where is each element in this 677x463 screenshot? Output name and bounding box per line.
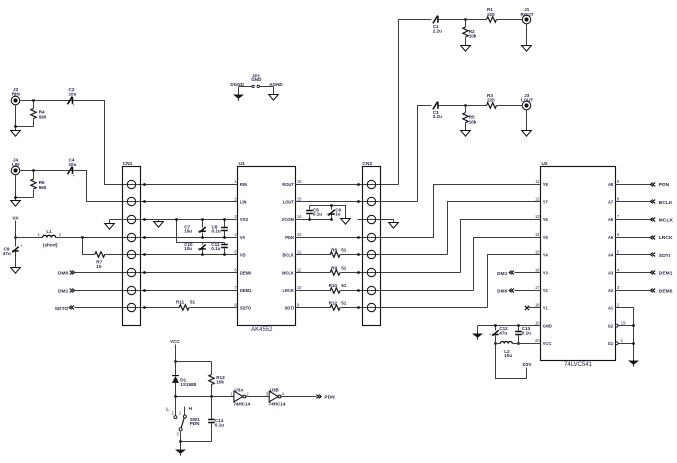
junction CN2 pin 6 stub — [357, 271, 360, 274]
svg-text:18: 18 — [535, 303, 540, 308]
wire MCLK row: U1 to R9 — [296, 272, 331, 274]
capacitor C11 0.1u (VD-VSS) — [224, 243, 226, 246]
resistor R8 51 — [330, 252, 340, 257]
svg-text:LOUT: LOUT — [521, 97, 534, 102]
wire PDN row: U1 pin 13 through CN2 pin 4 up to U2 Y8 — [296, 185, 541, 238]
junction CN1 pin 4 stub — [143, 236, 146, 239]
svg-text:DM0: DM0 — [497, 289, 508, 295]
svg-text:0.1u: 0.1u — [313, 212, 322, 217]
wire U2 A5 to port LRCK — [616, 237, 651, 239]
wire VCC rail to R13 — [176, 361, 212, 363]
capacitor C7 10u (VA-VSS) — [202, 220, 204, 228]
svg-text:LIN: LIN — [240, 200, 247, 205]
svg-text:R10: R10 — [329, 283, 338, 288]
inverter U3A 74HC14 — [234, 391, 243, 402]
resistor R12 51 — [330, 305, 340, 310]
U1 pin 4 name/number (VA) — [234, 232, 245, 240]
svg-text:ROUT: ROUT — [282, 182, 294, 187]
junction CN1 pin 2 stub — [143, 200, 146, 203]
wire U2 A2 to port DEM0 — [616, 290, 651, 292]
port arrow PDN out — [316, 395, 321, 399]
svg-text:PDN: PDN — [659, 182, 670, 188]
inductor L2 10u — [500, 342, 512, 344]
op-amp/codec U1 AK4552 body — [238, 167, 296, 326]
capacitor C8 0.1u (VA-VSS) — [224, 220, 226, 228]
junction VA/C9 — [14, 236, 17, 239]
U1 pin 12 name/number (BCLK) — [283, 250, 303, 258]
port arrow SDTI — [650, 253, 655, 257]
svg-text:0.1u: 0.1u — [212, 229, 221, 234]
wire ground rail to C14 — [181, 441, 212, 443]
U1 pin 16 name/number (ROUT) — [282, 179, 302, 187]
junction C11 bottom — [223, 253, 226, 256]
svg-text:G2: G2 — [608, 323, 614, 328]
svg-text:VD: VD — [240, 253, 246, 258]
junction G1/tie-down — [632, 342, 635, 345]
resistor R13 10k — [211, 362, 213, 375]
port DM0 input — [58, 271, 69, 277]
wire BCLK: CN2 pin 5 up to U2 pin — [448, 202, 541, 255]
svg-text:0.1u: 0.1u — [211, 246, 220, 251]
connector CN1 pin 6 circle — [127, 268, 135, 276]
wire: C3 to R3 — [439, 105, 487, 107]
svg-text:47u: 47u — [3, 251, 11, 256]
svg-text:PDN: PDN — [190, 421, 200, 426]
svg-text:GND: GND — [251, 77, 262, 82]
wire U3B to PDN port — [282, 396, 317, 398]
junction CN1 pin 3 stub — [143, 218, 146, 221]
svg-text:DM1: DM1 — [58, 288, 69, 294]
svg-text:Y4: Y4 — [543, 253, 549, 258]
U2 pin 12 name/number (Y7) — [535, 197, 549, 205]
svg-text:SDTI: SDTI — [659, 253, 671, 259]
wire DGND drop — [238, 87, 240, 95]
junction node C3/R5/R3 — [464, 104, 467, 107]
RCA jack J4 LIN — [11, 166, 20, 175]
svg-text:A3: A3 — [608, 270, 614, 275]
svg-text:A7: A7 — [608, 200, 614, 205]
wire LOUT row: U1 pin 15 through CN2 pin 2 (joins output rail) — [296, 201, 418, 203]
U2 pin 1 name/number (G1) — [608, 338, 624, 346]
junction C8 bottom — [223, 236, 226, 239]
svg-text:15: 15 — [535, 250, 540, 255]
connector CN1 pin 8 circle — [127, 303, 135, 311]
wire AGND drop — [273, 87, 275, 95]
wire U2 pin 18 no-connect stub — [529, 307, 541, 309]
junction D1/SW1 node — [174, 395, 177, 398]
ground (analog) AGND symbol — [269, 95, 279, 101]
wire U2 A3 to port DEM1 — [616, 272, 651, 274]
svg-text:10u: 10u — [69, 92, 77, 97]
svg-text:PDN: PDN — [324, 395, 335, 401]
svg-text:LIN: LIN — [12, 162, 20, 167]
port label PDN — [659, 182, 670, 188]
svg-text:R11: R11 — [176, 299, 185, 304]
port arrow PDN — [650, 183, 655, 187]
svg-text:A8: A8 — [608, 182, 614, 187]
capacitor C10 10u (VD-VSS) — [202, 243, 204, 245]
connector CN2 pin 6 circle — [367, 268, 375, 276]
svg-text:MCLK: MCLK — [282, 270, 294, 275]
svg-text:ROUT: ROUT — [520, 12, 533, 17]
connector CN2 pin 7 circle — [367, 286, 375, 294]
capacitor C1 2.2u — [433, 16, 438, 24]
wire MCLK: CN2 pin 6 up to U2 pin — [461, 220, 541, 273]
resistor R11 51 — [179, 305, 189, 310]
svg-text:DEM0: DEM0 — [659, 288, 673, 294]
U2 pin 8 name/number (A7) — [608, 197, 620, 205]
svg-text:16: 16 — [297, 179, 302, 184]
wire CN2 pin 3 stub to right ground — [358, 220, 394, 223]
wire BCLK row: U1 to R8 — [296, 254, 331, 256]
port arrow DM0 (U2) — [509, 289, 514, 293]
RCA jack J3 LOUT — [522, 101, 531, 110]
U1 pin 9 name/number (SDTI) — [285, 303, 300, 311]
connector CN2 pin 8 circle — [367, 303, 375, 311]
svg-text:U2: U2 — [541, 161, 548, 167]
U2 G1 bubble — [615, 342, 618, 345]
svg-text:51: 51 — [341, 248, 347, 253]
wire U2 A7 to port BCLK — [616, 201, 651, 203]
wire G1 to tie-down — [619, 343, 634, 345]
port arrow LRCK — [650, 236, 655, 240]
svg-text:AK4552: AK4552 — [251, 327, 273, 333]
ground (analog) VCOM rail — [341, 219, 351, 225]
U2 pin 10 name/number (GND) — [535, 320, 552, 328]
svg-text:10u: 10u — [184, 246, 192, 251]
svg-text:13: 13 — [297, 232, 302, 237]
port arrow BCLK — [650, 200, 655, 204]
U1 pin 15 name/number (LOUT) — [283, 197, 302, 205]
ground (analog) below J2 — [11, 131, 21, 137]
svg-text:51: 51 — [341, 283, 347, 288]
svg-text:12: 12 — [297, 250, 302, 255]
RCA jack J2 RIN — [11, 96, 20, 105]
wire RIN: J2 to C2 to CN1 pin 1 to U1 pin 1 — [21, 101, 238, 185]
svg-text:VA: VA — [240, 235, 245, 240]
svg-text:G1: G1 — [608, 341, 614, 346]
wire ROUT net: up to output filter rail — [399, 20, 432, 185]
wire DM1 to U2 pin 16 — [515, 272, 541, 274]
svg-text:0.1u: 0.1u — [522, 330, 531, 335]
port DM0 at U2 Y2 — [497, 289, 508, 295]
wire: J3 sleeve to ground — [526, 110, 528, 131]
svg-text:VCOM: VCOM — [282, 217, 295, 222]
svg-text:Y6: Y6 — [543, 217, 549, 222]
U2 pin 9 name/number (A8) — [608, 179, 620, 187]
jumper JP1 GND label — [251, 73, 262, 82]
svg-text:10u: 10u — [184, 229, 192, 234]
svg-text:DEM1: DEM1 — [240, 288, 252, 293]
junction C12 top — [494, 324, 497, 327]
port SDTO output — [55, 306, 69, 312]
resistor R6 560 — [31, 179, 36, 189]
junction CN2 pin 2 stub — [357, 200, 360, 203]
port arrow DM0 — [70, 271, 75, 275]
wire U3A to U3B — [246, 396, 270, 398]
svg-text:BCLK: BCLK — [283, 253, 294, 258]
resistor R5 10k — [463, 113, 468, 123]
wire VA branch down to R7 (VD feed) — [83, 238, 95, 255]
svg-text:A4: A4 — [608, 253, 614, 258]
capacitor C5 0.1u (VCOM) — [309, 206, 311, 210]
connector CN2 pin 4 circle — [367, 233, 375, 241]
junction VSS/sub-rail — [175, 218, 178, 221]
wire VCOM row: U1 pin 14 to C5/C6 — [296, 219, 332, 221]
svg-text:R9: R9 — [331, 265, 337, 270]
svg-text:LRCK: LRCK — [283, 288, 294, 293]
port label LRCK — [659, 235, 673, 241]
svg-text:16: 16 — [535, 267, 540, 272]
resistor R3 220 — [487, 103, 497, 108]
wire DGND side of JP1 — [239, 86, 252, 88]
resistor R1 220 — [487, 17, 497, 22]
wire VA feed down — [15, 221, 17, 238]
no-connect X on U2 pin 18 — [525, 306, 529, 310]
port label SDTI — [659, 253, 671, 259]
wire ROUT row: U1 pin 16 through CN2 pin 1 (joins output rail) — [296, 184, 399, 186]
svg-text:74HC14: 74HC14 — [233, 402, 250, 407]
svg-text:VCC: VCC — [170, 339, 180, 344]
wire LOUT net: up to output filter rail — [418, 106, 432, 202]
port arrow DM1 (U2) — [509, 271, 514, 275]
junction J4/R6 — [32, 169, 35, 172]
svg-text:Y8: Y8 — [543, 182, 549, 187]
port arrow MCLK — [650, 218, 655, 222]
wire LIN: J4 to C4 to CN1 pin 2 to U1 pin 2 — [21, 171, 238, 202]
svg-text:0.1u: 0.1u — [215, 422, 224, 427]
U1 pin 10 name/number (LRCK) — [283, 285, 303, 293]
junction CN2 pin 8 stub — [357, 306, 360, 309]
junction CN2 pin 5 stub — [357, 253, 360, 256]
junction C6 bottom on VCOM row — [330, 218, 333, 221]
U2 pin 19 name/number (G2) — [608, 320, 626, 328]
U1 pin 1 name/number (RIN) — [234, 179, 247, 187]
junction C6 top on rail — [330, 204, 333, 207]
svg-text:14: 14 — [535, 232, 540, 237]
buffer U2 74LVC541 body — [541, 167, 616, 361]
capacitor C9 47u — [15, 238, 17, 247]
ground (digital) DGND symbol — [233, 95, 244, 99]
svg-text:10k: 10k — [469, 34, 477, 39]
svg-text:SDTI: SDTI — [285, 306, 294, 311]
svg-text:(short): (short) — [43, 243, 58, 248]
svg-text:DM0: DM0 — [58, 271, 69, 277]
svg-text:R8: R8 — [331, 248, 337, 253]
connector CN2 pin 1 circle — [367, 180, 375, 188]
svg-text:Y2: Y2 — [543, 288, 549, 293]
resistor R4 560 — [31, 109, 36, 119]
wire R7 to CN1 pin 5 to U1 pin 5 (VD) — [105, 254, 238, 256]
connector CN1 pin 7 circle — [127, 286, 135, 294]
port arrow SDTO — [69, 306, 74, 310]
capacitor C4 10u — [68, 167, 73, 175]
junction J2/R4 — [32, 99, 35, 102]
svg-text:LOUT: LOUT — [283, 200, 295, 205]
junction VA/R7 branch — [81, 236, 84, 239]
svg-text:R12: R12 — [329, 301, 338, 306]
wire: J4 sleeve / R6 bottom to ground — [15, 176, 17, 201]
svg-text:13: 13 — [535, 214, 540, 219]
port arrow DM1 — [70, 289, 75, 293]
wire U2 VCC row — [513, 343, 541, 345]
ground (analog) below C9 — [11, 268, 21, 274]
svg-text:DEM1: DEM1 — [659, 271, 673, 277]
svg-text:CN1: CN1 — [123, 161, 133, 167]
U1 pin 5 name/number (VD) — [234, 250, 245, 258]
connector CN1 body — [123, 167, 141, 326]
wire VA to L1 — [16, 237, 43, 239]
capacitor C2 10u — [68, 97, 73, 105]
svg-text:10k: 10k — [216, 380, 224, 385]
wire LRCK: CN2 pin 7 up to U2 pin — [474, 238, 541, 291]
wire VCC feed down — [175, 345, 177, 362]
wire LRCK row: U1 to R10 — [296, 290, 331, 292]
port DM1 input — [58, 288, 69, 294]
svg-text:Y3: Y3 — [543, 270, 549, 275]
svg-text:A6: A6 — [608, 217, 614, 222]
U1 pin 7 name/number (DEM1) — [234, 285, 252, 293]
connector CN1 pin 4 circle — [127, 233, 135, 241]
U1 pin 14 name/number (VCOM) — [282, 214, 303, 222]
svg-text:74HC14: 74HC14 — [269, 402, 286, 407]
wire U2 A4 to port SDTI — [616, 254, 651, 256]
svg-text:LRCK: LRCK — [659, 235, 673, 241]
svg-text:1u: 1u — [335, 212, 341, 217]
RCA jack J1 ROUT — [522, 15, 531, 24]
junction CN1 pin 6 stub — [143, 271, 146, 274]
port label PDN out — [324, 395, 335, 401]
svg-text:51: 51 — [341, 265, 347, 270]
wire G2 to tie-down — [619, 325, 634, 327]
wire R9 through CN2 pin 6 — [341, 272, 461, 274]
junction C7 top — [201, 218, 204, 221]
port arrow DEM0 — [650, 289, 655, 293]
wire DM1 to CN1 pin 7 to U1 pin 7 — [75, 290, 238, 292]
wire U2 A8 to port PDN — [616, 184, 651, 186]
capacitor C6 1u (VCOM) — [331, 206, 333, 210]
U2 pin 5 name/number (A4) — [608, 250, 620, 258]
ground (analog) below R5 — [461, 131, 471, 137]
connector CN1 pin 1 circle — [127, 180, 135, 188]
port label BCLK — [659, 200, 673, 206]
diode D1 1S1588 — [175, 362, 177, 376]
wire VSS sub-rail for C10/C11 — [177, 220, 225, 243]
port label MCLK — [659, 218, 674, 224]
wire R8 through CN2 pin 5 — [341, 254, 448, 256]
wire U2 A1/G2/G1 tie-down — [616, 308, 634, 361]
svg-text:GND: GND — [543, 323, 552, 328]
wire: J2 sleeve / R4 bottom to ground — [15, 105, 17, 131]
svg-text:DEM0: DEM0 — [240, 270, 252, 275]
svg-text:CN2: CN2 — [362, 161, 372, 167]
connector CN1 pin 5 circle — [127, 250, 135, 258]
jumper JP1 pin circles — [252, 85, 254, 87]
junction CN2 pin 1 stub — [357, 183, 360, 186]
junction J2 ground node — [14, 125, 17, 128]
U1 pin 8 name/number (SDTO) — [234, 303, 252, 311]
connector CN2 pin 2 circle — [367, 197, 375, 205]
svg-text:L: L — [166, 406, 169, 411]
svg-text:VCC: VCC — [543, 341, 552, 346]
connector CN1 pin 2 circle — [127, 197, 135, 205]
wire: R1 to J1 — [497, 19, 523, 21]
wire L1 to CN1 pin 4 to U1 pin 4 (VA) — [56, 237, 238, 239]
resistor R7 10 — [95, 252, 105, 257]
U2 pin 11 name/number (Y8) — [535, 179, 548, 187]
svg-text:220: 220 — [487, 97, 495, 102]
junction C10 bottom — [201, 253, 204, 256]
capacitor C13 0.1u (VCC-GND) — [518, 326, 520, 332]
wire SW1 common to ground rail — [180, 431, 182, 450]
junction C13 top — [517, 324, 520, 327]
junction CN2 pin 7 stub — [357, 289, 360, 292]
U1 pin 11 name/number (MCLK) — [282, 267, 302, 275]
svg-text:10: 10 — [96, 264, 102, 269]
wire D3V feed to VCC node — [496, 344, 527, 379]
svg-text:VSS: VSS — [240, 217, 248, 222]
U1 pin 2 name/number (LIN) — [234, 197, 246, 205]
connector CN2 pin 3 circle — [367, 215, 375, 223]
svg-text:D3V: D3V — [523, 362, 533, 367]
svg-text:10: 10 — [297, 285, 302, 290]
svg-text:Y5: Y5 — [543, 235, 549, 240]
inductor L1 (short) — [43, 235, 56, 237]
wire R11 to U1 pin 8 — [190, 307, 238, 309]
svg-text:10u: 10u — [504, 353, 512, 358]
wire U2 GND drop to ground — [477, 326, 479, 334]
svg-text:U3A: U3A — [234, 387, 244, 392]
wire SDTI: CN2 pin 8 up to U2 pin — [488, 255, 541, 308]
wire: R3 to J3 — [497, 105, 523, 107]
capacitor C14 0.1u — [211, 397, 213, 420]
port label DEM0 — [659, 288, 673, 294]
svg-text:A2: A2 — [608, 288, 614, 293]
svg-text:1S1588: 1S1588 — [180, 382, 196, 387]
wire R10 through CN2 pin 7 — [341, 290, 474, 292]
resistor R2 10k — [463, 27, 468, 37]
svg-text:51: 51 — [341, 301, 347, 306]
capacitor C3 2.2u — [433, 102, 438, 110]
switch SW1 PDN — [175, 397, 177, 416]
ground (analog) left of CN1 pin 3 — [105, 224, 115, 230]
svg-text:U3B: U3B — [270, 387, 280, 392]
svg-text:VA: VA — [12, 215, 19, 220]
ground (analog) on VSS row right of CN1 — [158, 220, 160, 222]
svg-text:51: 51 — [190, 299, 196, 304]
junction node C1/R2/R1 — [464, 18, 467, 21]
svg-text:11: 11 — [297, 267, 302, 272]
junction CN1 pin 5 stub — [143, 253, 146, 256]
junction C12 bottom — [494, 342, 497, 345]
port label DEM1 — [659, 271, 673, 277]
connector CN2 body — [363, 167, 381, 326]
junction CN1 pin 8 stub — [143, 306, 146, 309]
svg-text:47u: 47u — [499, 330, 507, 335]
junction VCC/D1/R13 rail — [174, 360, 177, 363]
U1 pin 3 name/number (VSS) — [234, 214, 248, 222]
svg-text:DM1: DM1 — [497, 271, 508, 277]
wire: C1 to R1 — [439, 19, 487, 21]
svg-text:15: 15 — [297, 197, 302, 202]
svg-text:14: 14 — [297, 214, 302, 219]
ground (analog) below J4 — [11, 201, 21, 207]
junction R13/C14 node — [210, 395, 213, 398]
svg-text:BCLK: BCLK — [659, 200, 673, 206]
U2 pin 16 name/number (Y3) — [535, 267, 549, 275]
svg-text:10: 10 — [535, 320, 540, 325]
wire PDN node row to U3A — [176, 396, 234, 398]
